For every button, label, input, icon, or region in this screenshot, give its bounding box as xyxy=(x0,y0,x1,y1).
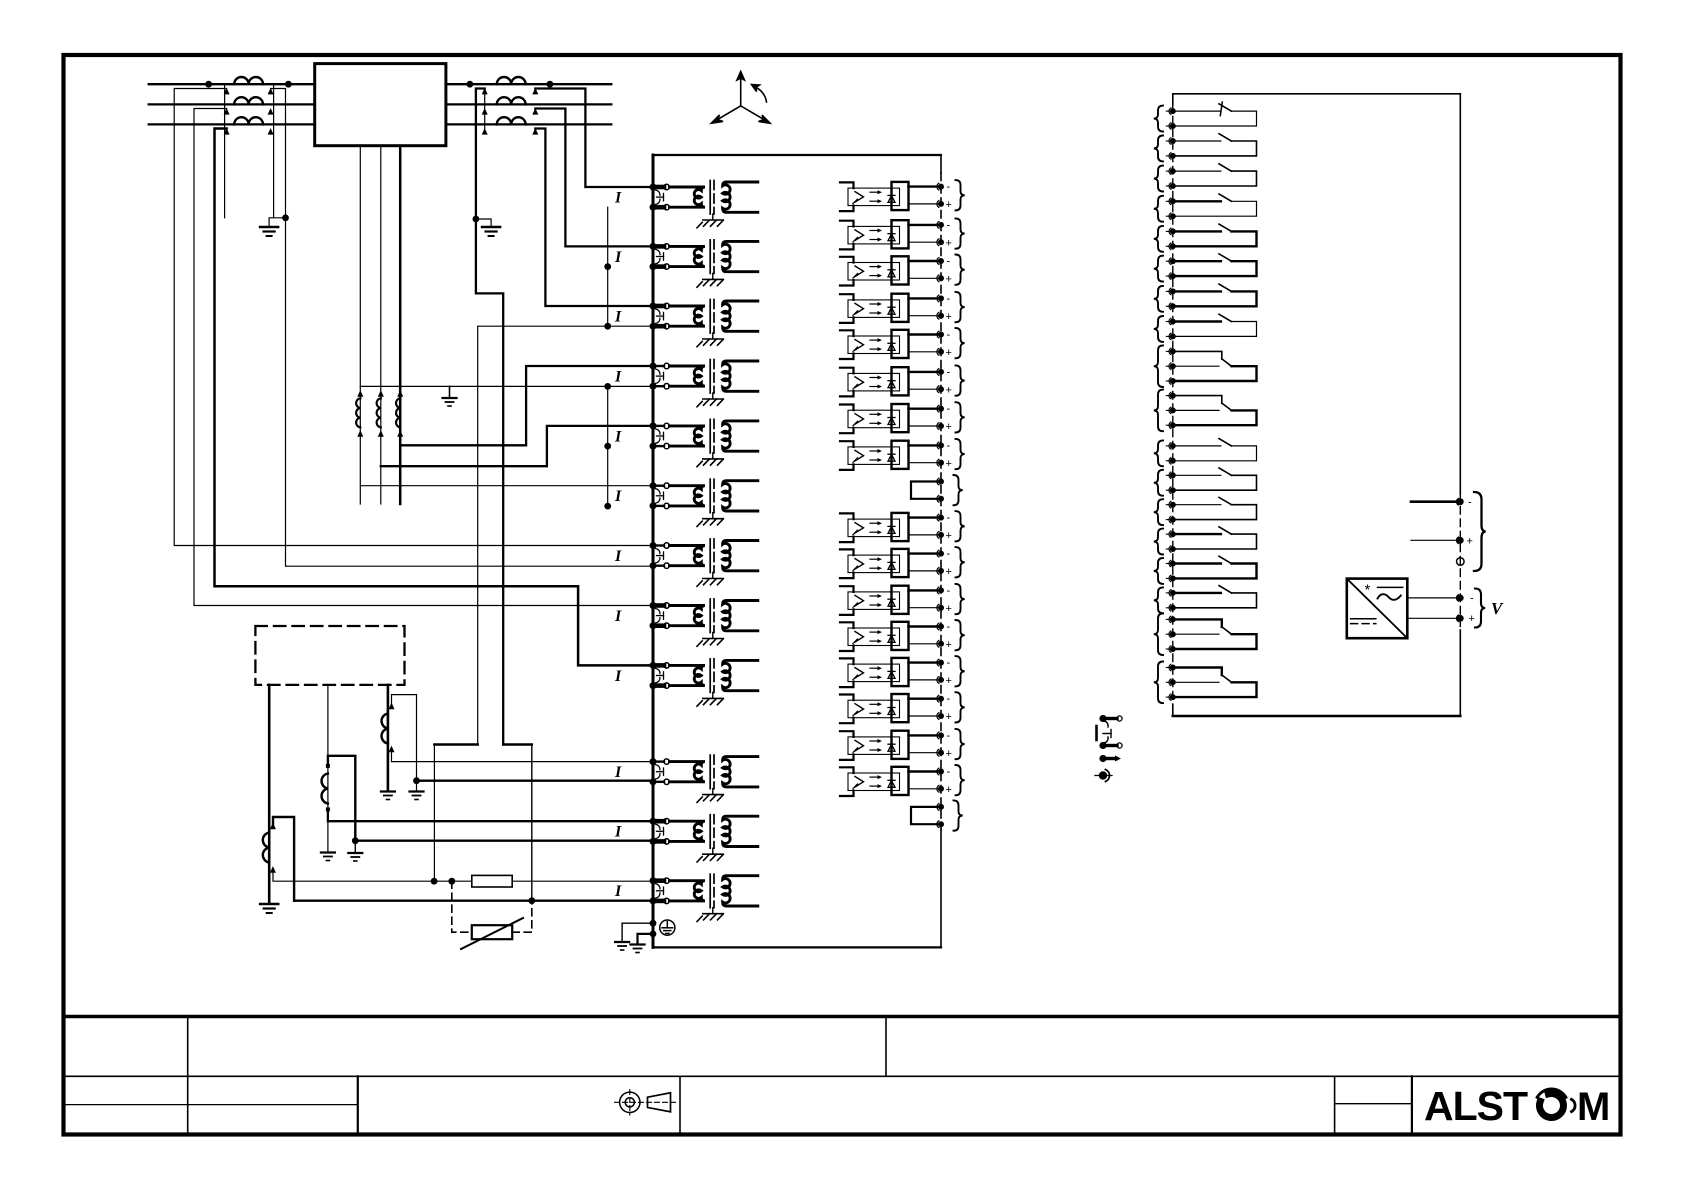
svg-text:-: - xyxy=(947,293,951,305)
svg-text:-: - xyxy=(947,256,951,268)
brace RL11 xyxy=(1154,440,1163,466)
lower CT A primary xyxy=(268,685,271,902)
title block row rule xyxy=(64,1075,1621,1077)
svg-text:I: I xyxy=(614,428,622,445)
svg-text:+: + xyxy=(1469,613,1475,625)
svg-text:+: + xyxy=(946,530,952,542)
PSU output wires xyxy=(1407,597,1456,599)
CT input transformer T5 xyxy=(650,419,758,466)
svg-text:+: + xyxy=(946,311,952,323)
opto input U7 xyxy=(840,404,944,433)
svg-text:+: + xyxy=(946,603,952,615)
svg-text:I: I xyxy=(614,548,622,565)
brace RL7 xyxy=(1154,286,1163,312)
svg-text:ALST: ALST xyxy=(1424,1083,1528,1129)
CT input transformer T10 xyxy=(650,755,758,802)
brace RL18 xyxy=(1154,662,1163,704)
wire B left CT to input T8 xyxy=(194,109,649,606)
wire lower CT A to input T12 low xyxy=(294,900,649,902)
three-phase busbar L3 xyxy=(149,123,612,125)
left CT earth link xyxy=(282,214,289,221)
lower CT B primary xyxy=(327,685,329,851)
svg-text:I: I xyxy=(614,190,622,207)
brace output 9 xyxy=(954,475,963,505)
svg-text:-: - xyxy=(947,512,951,524)
brace RL10 xyxy=(1154,390,1163,432)
funnel right leg xyxy=(531,745,533,901)
varistor RV1 xyxy=(472,925,512,939)
ALSTOM logo xyxy=(1424,1083,1610,1129)
neutral chain T1-T3 xyxy=(607,207,609,326)
svg-text:+: + xyxy=(946,237,952,249)
CT input transformer T8 xyxy=(650,599,758,646)
svg-text:I: I xyxy=(614,824,622,841)
svg-text:+: + xyxy=(946,421,952,433)
wire right CT phase3 to input T3 xyxy=(535,129,649,307)
svg-text:-: - xyxy=(947,219,951,231)
opto input U4 xyxy=(840,294,944,323)
opto input U17 xyxy=(840,767,944,796)
svg-text:I: I xyxy=(614,488,622,505)
funnel left leg xyxy=(433,745,435,882)
output contact RL5 xyxy=(1166,228,1176,235)
brace RL12 xyxy=(1154,470,1163,496)
brace RL17 xyxy=(1154,613,1163,655)
case earth terminal xyxy=(1457,558,1465,566)
node on L1 left xyxy=(205,81,212,88)
wire A left CT to input T7 xyxy=(174,89,649,546)
tertiary CT star bus xyxy=(360,385,649,387)
brace RL1 xyxy=(1154,106,1163,132)
svg-text:+: + xyxy=(946,458,952,470)
lower CT C secondary bracket xyxy=(392,695,417,779)
ground lower CT B secondary xyxy=(354,841,356,852)
svg-text:*: * xyxy=(1365,582,1371,599)
wire lower CT B to input T11 low xyxy=(355,840,649,842)
wire right CT phase2 to input T2 xyxy=(535,109,649,247)
relay case left module xyxy=(653,154,941,156)
output contact RL2 xyxy=(1166,138,1176,145)
svg-text:-: - xyxy=(947,440,951,452)
ground left CT group xyxy=(260,227,278,236)
opto input U1 xyxy=(840,182,944,211)
PE ground wire 1 xyxy=(622,923,653,941)
legend: case terminal xyxy=(1095,770,1112,782)
wire lower CT C to input T10 low xyxy=(417,780,650,782)
brace RL6 xyxy=(1154,256,1163,282)
opto input U3 xyxy=(840,256,944,285)
wire lower CT C to input T10 high xyxy=(392,750,650,762)
opto input U12 xyxy=(840,586,944,615)
legend: pin terminal xyxy=(1099,755,1121,762)
output contact RL16 xyxy=(1166,590,1176,597)
svg-text:-: - xyxy=(947,730,951,742)
wire lower CT A to input T12 high xyxy=(273,871,472,882)
svg-text:I: I xyxy=(614,309,622,326)
svg-text:-: - xyxy=(947,548,951,560)
wire right CT star point xyxy=(476,89,503,745)
tertiary CT 3 xyxy=(396,398,400,427)
opto input U5 xyxy=(840,330,944,359)
svg-text:-: - xyxy=(947,621,951,633)
ground lower CT C secondary xyxy=(416,781,418,790)
CT input transformer T12 xyxy=(650,874,758,921)
CT input transformer T7 xyxy=(650,539,758,586)
CT input transformer T4 xyxy=(650,360,758,407)
CT input transformer T11 xyxy=(650,815,758,862)
brace opto 14 xyxy=(956,656,965,686)
brace RL5 xyxy=(1154,226,1163,252)
battery supply terminal + xyxy=(1411,539,1456,541)
opto input U16 xyxy=(840,731,944,760)
opto input U14 xyxy=(840,658,944,687)
ground right CT group xyxy=(482,227,500,236)
svg-text:-: - xyxy=(947,657,951,669)
ground lower CT A xyxy=(260,904,278,913)
dashed accessory box xyxy=(255,626,404,685)
output contact RL3 xyxy=(1166,168,1176,175)
svg-text:+: + xyxy=(946,566,952,578)
svg-text:+: + xyxy=(946,274,952,286)
relay case output terminal edge xyxy=(1172,94,1174,104)
title block sub rules xyxy=(64,1104,358,1106)
svg-text:-: - xyxy=(947,766,951,778)
svg-text:+: + xyxy=(946,639,952,651)
wire tertiary CT2 to input T5 xyxy=(381,426,649,466)
svg-text:-: - xyxy=(947,693,951,705)
svg-text:+: + xyxy=(946,199,952,211)
lower CT C winding xyxy=(382,714,388,744)
wire D left CT return to T7 xyxy=(271,89,649,567)
svg-text:I: I xyxy=(614,764,622,781)
wire tertiary CT3 to input T4 xyxy=(400,366,649,445)
brace opto 5 xyxy=(956,328,965,358)
status contact stub 9 xyxy=(911,478,944,502)
transformer tertiary lead 2 xyxy=(380,146,382,504)
power supply unit PSU xyxy=(1347,579,1408,639)
lower CT B winding xyxy=(322,774,328,804)
brace opto 2 xyxy=(956,218,965,248)
brace RL16 xyxy=(1154,587,1163,613)
tertiary star earth stub xyxy=(449,386,451,397)
svg-text:V: V xyxy=(1491,599,1504,618)
svg-text:M: M xyxy=(1577,1085,1610,1129)
brace opto 10 xyxy=(956,511,965,541)
ground lower CT B xyxy=(321,853,335,861)
brace RL3 xyxy=(1154,166,1163,192)
brace RL2 xyxy=(1154,136,1163,162)
output contact RL13 xyxy=(1166,501,1176,508)
status contact stub 18 xyxy=(911,804,944,828)
battery supply terminal - xyxy=(1411,500,1456,503)
opto input U10 xyxy=(840,513,944,542)
svg-text:I: I xyxy=(614,249,622,266)
node on L1 right xyxy=(467,81,474,88)
svg-text:-: - xyxy=(1468,497,1472,509)
three-phase busbar L2 xyxy=(149,103,612,105)
relay case right edge xyxy=(1459,94,1461,494)
transformer tertiary lead 3 xyxy=(399,146,402,504)
transformer tertiary lead 1 xyxy=(359,146,361,504)
lower CT C primary xyxy=(387,685,390,790)
opto input U8 xyxy=(840,441,944,470)
lower CT A secondary bracket xyxy=(273,817,294,901)
brace opto 17 xyxy=(956,765,965,795)
svg-text:+: + xyxy=(946,675,952,687)
brace opto 16 xyxy=(956,729,965,759)
opto input U15 xyxy=(840,694,944,723)
output contact RL17 (changeover) xyxy=(1166,616,1176,623)
three-phase busbar L1 xyxy=(149,83,612,85)
svg-text:+: + xyxy=(946,748,952,760)
relay case output module top xyxy=(1173,93,1461,95)
line CT left group phase 2 xyxy=(234,97,263,104)
brace opto 4 xyxy=(956,292,965,322)
ground tertiary star xyxy=(443,398,457,406)
svg-text:-: - xyxy=(1470,593,1474,605)
output contact RL4 xyxy=(1166,198,1176,205)
brace RL15 xyxy=(1154,558,1163,584)
svg-text:I: I xyxy=(614,883,622,900)
brace opto 7 xyxy=(956,402,965,432)
first-angle projection symbol xyxy=(615,1090,677,1116)
CT input transformer T6 xyxy=(650,479,758,526)
phasor reference symbol xyxy=(711,72,770,124)
line CT right group phase 3 xyxy=(497,117,526,124)
opto input U6 xyxy=(840,367,944,396)
output contact RL15 xyxy=(1166,560,1176,567)
varistor dashed leads xyxy=(452,881,472,932)
opto input U13 xyxy=(840,622,944,651)
wire right CT phase1 to input T1 xyxy=(535,89,649,188)
opto input U2 xyxy=(840,220,944,249)
tertiary CT 2 xyxy=(377,398,381,427)
output contact RL11 xyxy=(1166,443,1176,450)
neutral chain T4-T6 xyxy=(607,386,609,506)
wire tertiary CT1 to input T6 xyxy=(360,485,649,487)
svg-text:+: + xyxy=(946,384,952,396)
svg-text:I: I xyxy=(614,608,622,625)
CT input transformer T1 xyxy=(650,181,758,228)
brace opto 13 xyxy=(956,620,965,650)
svg-text:I: I xyxy=(614,668,622,685)
svg-text:-: - xyxy=(947,585,951,597)
brace RL13 xyxy=(1154,499,1163,525)
right CT earth link xyxy=(473,216,480,223)
brace opto 3 xyxy=(956,255,965,285)
relay case output module bottom bus xyxy=(1173,715,1461,718)
output contact RL8 xyxy=(1166,318,1176,325)
wire T3 return to funnel xyxy=(478,326,649,744)
output contact RL14 xyxy=(1166,531,1176,538)
svg-text:-: - xyxy=(947,181,951,193)
line CT left group phase 3 xyxy=(234,117,263,124)
title block top rule xyxy=(64,1015,1621,1019)
svg-text:+: + xyxy=(1467,536,1473,548)
ground lower CT C xyxy=(381,792,395,800)
wire CT1 secondary a xyxy=(224,84,226,218)
opto input U11 xyxy=(840,549,944,578)
brace opto 12 xyxy=(956,584,965,614)
brace RL14 xyxy=(1154,529,1163,555)
svg-text:+: + xyxy=(946,711,952,723)
funnel joint xyxy=(434,743,477,746)
brace opto 6 xyxy=(956,365,965,395)
svg-text:+: + xyxy=(946,784,952,796)
brace RL4 xyxy=(1154,196,1163,222)
output contact RL9 (changeover) xyxy=(1166,348,1176,355)
svg-text:-: - xyxy=(947,329,951,341)
svg-text:+: + xyxy=(946,347,952,359)
line CT right group phase 2 xyxy=(497,97,526,104)
brace opto 15 xyxy=(956,692,965,722)
brace battery supply xyxy=(1474,492,1486,571)
resistor R1 xyxy=(472,875,512,887)
brace opto 8 xyxy=(956,439,965,469)
brace opto 11 xyxy=(956,547,965,577)
title block column rules xyxy=(187,1017,189,1135)
wire CT1 secondary b xyxy=(273,84,275,218)
CT input transformer T3 xyxy=(650,300,758,347)
line CT left group phase 1 xyxy=(234,77,263,84)
output contact RL6 xyxy=(1166,258,1176,265)
svg-text:I: I xyxy=(614,369,622,386)
svg-text:-: - xyxy=(947,366,951,378)
lower CT B secondary bracket xyxy=(328,756,355,841)
relay case terminal edge (dashed) xyxy=(940,155,942,173)
brace RL9 xyxy=(1154,345,1163,387)
brace output 18 xyxy=(954,800,963,830)
wire C left CT to input T9 xyxy=(215,129,650,666)
brace opto 1 xyxy=(956,180,965,210)
tertiary CT 1 xyxy=(356,398,360,427)
brace field voltage xyxy=(1475,589,1485,628)
power transformer T1 xyxy=(315,64,446,146)
output contact RL10 (changeover) xyxy=(1166,392,1176,399)
output contact RL1 xyxy=(1166,108,1176,115)
svg-text:-: - xyxy=(947,403,951,415)
CT input transformer T2 xyxy=(650,240,758,287)
CT input transformer T9 xyxy=(650,659,758,706)
output contact RL12 xyxy=(1166,472,1176,479)
PE terminal pins xyxy=(650,920,657,927)
legend: disconnecting terminal pair xyxy=(1097,715,1123,749)
wire lower CT B to input T11 high xyxy=(328,809,649,821)
ALSTOM logo O swirl xyxy=(1537,1089,1575,1117)
output contact RL18 (changeover) xyxy=(1166,664,1176,671)
lower CT A winding xyxy=(263,833,269,863)
PE ground wire 2 xyxy=(638,934,654,944)
output contact RL7 xyxy=(1166,288,1176,295)
protective earth symbol xyxy=(660,920,675,935)
brace RL8 xyxy=(1154,316,1163,342)
line CT right group phase 1 xyxy=(497,77,526,84)
